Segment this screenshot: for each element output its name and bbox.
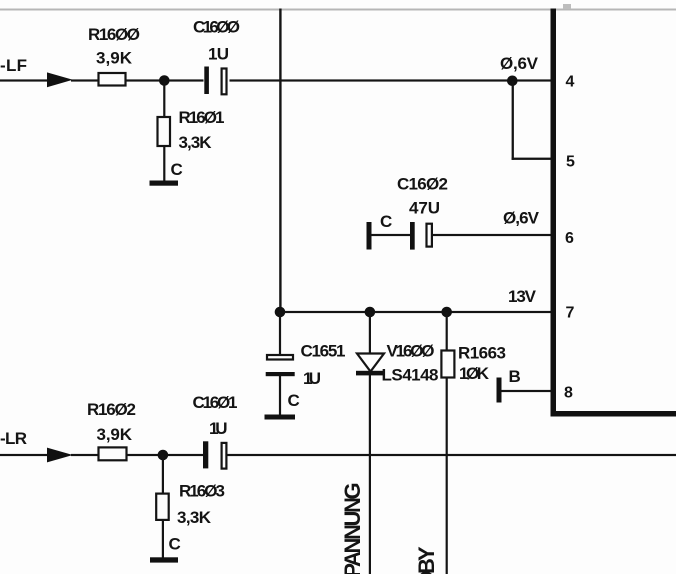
svg-text:C16Ø2: C16Ø2 <box>397 175 448 194</box>
svg-text:1ØK: 1ØK <box>459 364 490 383</box>
resistor R1663 <box>441 351 454 378</box>
svg-text:6: 6 <box>565 230 574 247</box>
svg-text:-LF: -LF <box>0 56 27 75</box>
wire R1601 to ground <box>163 146 165 181</box>
wire vertical from top border to 13V bus <box>279 9 281 313</box>
junction node bus/R1663 <box>441 307 452 318</box>
svg-text:R1663: R1663 <box>458 344 506 363</box>
svg-text:R16Ø3: R16Ø3 <box>179 482 225 501</box>
svg-text:C: C <box>380 212 392 231</box>
wire bus down to R1663 <box>446 312 448 350</box>
wire arrow to R1602 <box>71 454 99 456</box>
ground C (below R1603) <box>150 557 178 562</box>
resistor R1601 <box>158 117 171 146</box>
wire R1603 to ground <box>162 521 164 558</box>
svg-text:13V: 13V <box>508 287 537 306</box>
wire C1602 to IC pin 6 <box>433 234 551 236</box>
junction node bus/V1600 <box>365 307 376 318</box>
svg-text:PANNUNG: PANNUNG <box>340 482 365 574</box>
wire B terminal to IC pin 8 <box>502 390 552 392</box>
wire arrow to R1600 <box>71 79 99 81</box>
capacitor C1651 (electrolytic) <box>267 355 293 360</box>
wire C1651 to ground <box>279 376 281 415</box>
arrow -LF signal direction <box>47 72 73 87</box>
junction node at pin 4 <box>507 76 518 87</box>
resistor R1600 <box>99 73 126 86</box>
svg-text:R16Ø1: R16Ø1 <box>179 108 225 127</box>
diode V1600 <box>357 354 384 372</box>
wire C1601 to right edge <box>228 454 676 456</box>
svg-text:R16ØØ: R16ØØ <box>88 25 140 44</box>
svg-text:Ø,6V: Ø,6V <box>500 54 539 73</box>
wire to IC pin 5 <box>512 158 552 160</box>
wire -LR input <box>0 454 48 456</box>
junction node bus/C1651 <box>275 307 286 318</box>
wire C1600 to IC pin 4 <box>230 79 551 81</box>
svg-text:C16Ø1: C16Ø1 <box>193 393 238 412</box>
wire R1602 to C1601 <box>127 454 205 456</box>
svg-text:C: C <box>171 160 183 179</box>
node B terminal (pin 8) <box>497 378 502 403</box>
wire bus down to V1600 <box>369 312 371 353</box>
svg-text:5: 5 <box>566 154 575 171</box>
svg-text:1U: 1U <box>208 45 229 64</box>
pin 3 remnant (gray, cut at top edge) <box>563 4 571 9</box>
svg-text:Ø,6V: Ø,6V <box>503 209 540 228</box>
svg-text:3,9K: 3,9K <box>97 425 133 444</box>
svg-text:47U: 47U <box>409 199 440 218</box>
wire junction down to R1603 <box>162 455 164 493</box>
ground C (below R1601) <box>150 181 179 186</box>
IC U1 left edge <box>551 9 557 417</box>
wire R1663 down to bottom edge <box>446 378 448 574</box>
svg-text:C1651: C1651 <box>301 342 346 361</box>
wire -LF input <box>0 79 48 81</box>
wire V1600 down to bottom edge <box>369 375 371 574</box>
svg-text:LS4148: LS4148 <box>382 366 439 385</box>
svg-text:V16ØØ: V16ØØ <box>387 342 435 361</box>
junction node at R1602/R1603 <box>158 450 169 461</box>
svg-text:7: 7 <box>566 305 575 322</box>
wire R1600 to C1600 <box>126 79 204 81</box>
node C terminal (left of C1602) <box>367 222 372 250</box>
wire 13V bus to IC pin 7 <box>279 311 551 313</box>
resistor R1602 <box>99 447 127 460</box>
capacitor C1602 <box>410 222 415 250</box>
svg-text:3,3K: 3,3K <box>179 133 213 152</box>
svg-text:DBY: DBY <box>414 546 439 574</box>
IC U1 bottom edge <box>551 411 676 417</box>
svg-text:B: B <box>509 367 521 386</box>
svg-text:1U: 1U <box>209 419 228 438</box>
svg-text:C: C <box>169 535 181 554</box>
svg-text:C16ØØ: C16ØØ <box>193 18 240 37</box>
arrow -LR signal direction <box>47 448 73 463</box>
resistor R1603 <box>156 494 169 520</box>
svg-text:3,9K: 3,9K <box>96 49 133 68</box>
junction node at R1600/R1601 <box>159 75 170 86</box>
svg-text:R16Ø2: R16Ø2 <box>87 400 136 419</box>
svg-text:3,3K: 3,3K <box>177 508 212 527</box>
svg-text:-LR: -LR <box>0 429 27 448</box>
svg-text:1U: 1U <box>303 369 321 388</box>
svg-text:C: C <box>288 391 300 410</box>
wire junction down to R1601 <box>163 81 165 118</box>
capacitor C1600 <box>204 67 209 95</box>
ground C (below C1651) <box>265 415 296 420</box>
wire bus down to C1651 <box>279 312 281 354</box>
svg-text:8: 8 <box>564 385 573 402</box>
page border line (gray) <box>0 9 676 11</box>
wire C terminal to C1602 <box>371 234 410 236</box>
wire pin 4 junction down <box>512 81 514 160</box>
svg-text:4: 4 <box>566 74 575 91</box>
capacitor C1601 <box>203 441 208 468</box>
